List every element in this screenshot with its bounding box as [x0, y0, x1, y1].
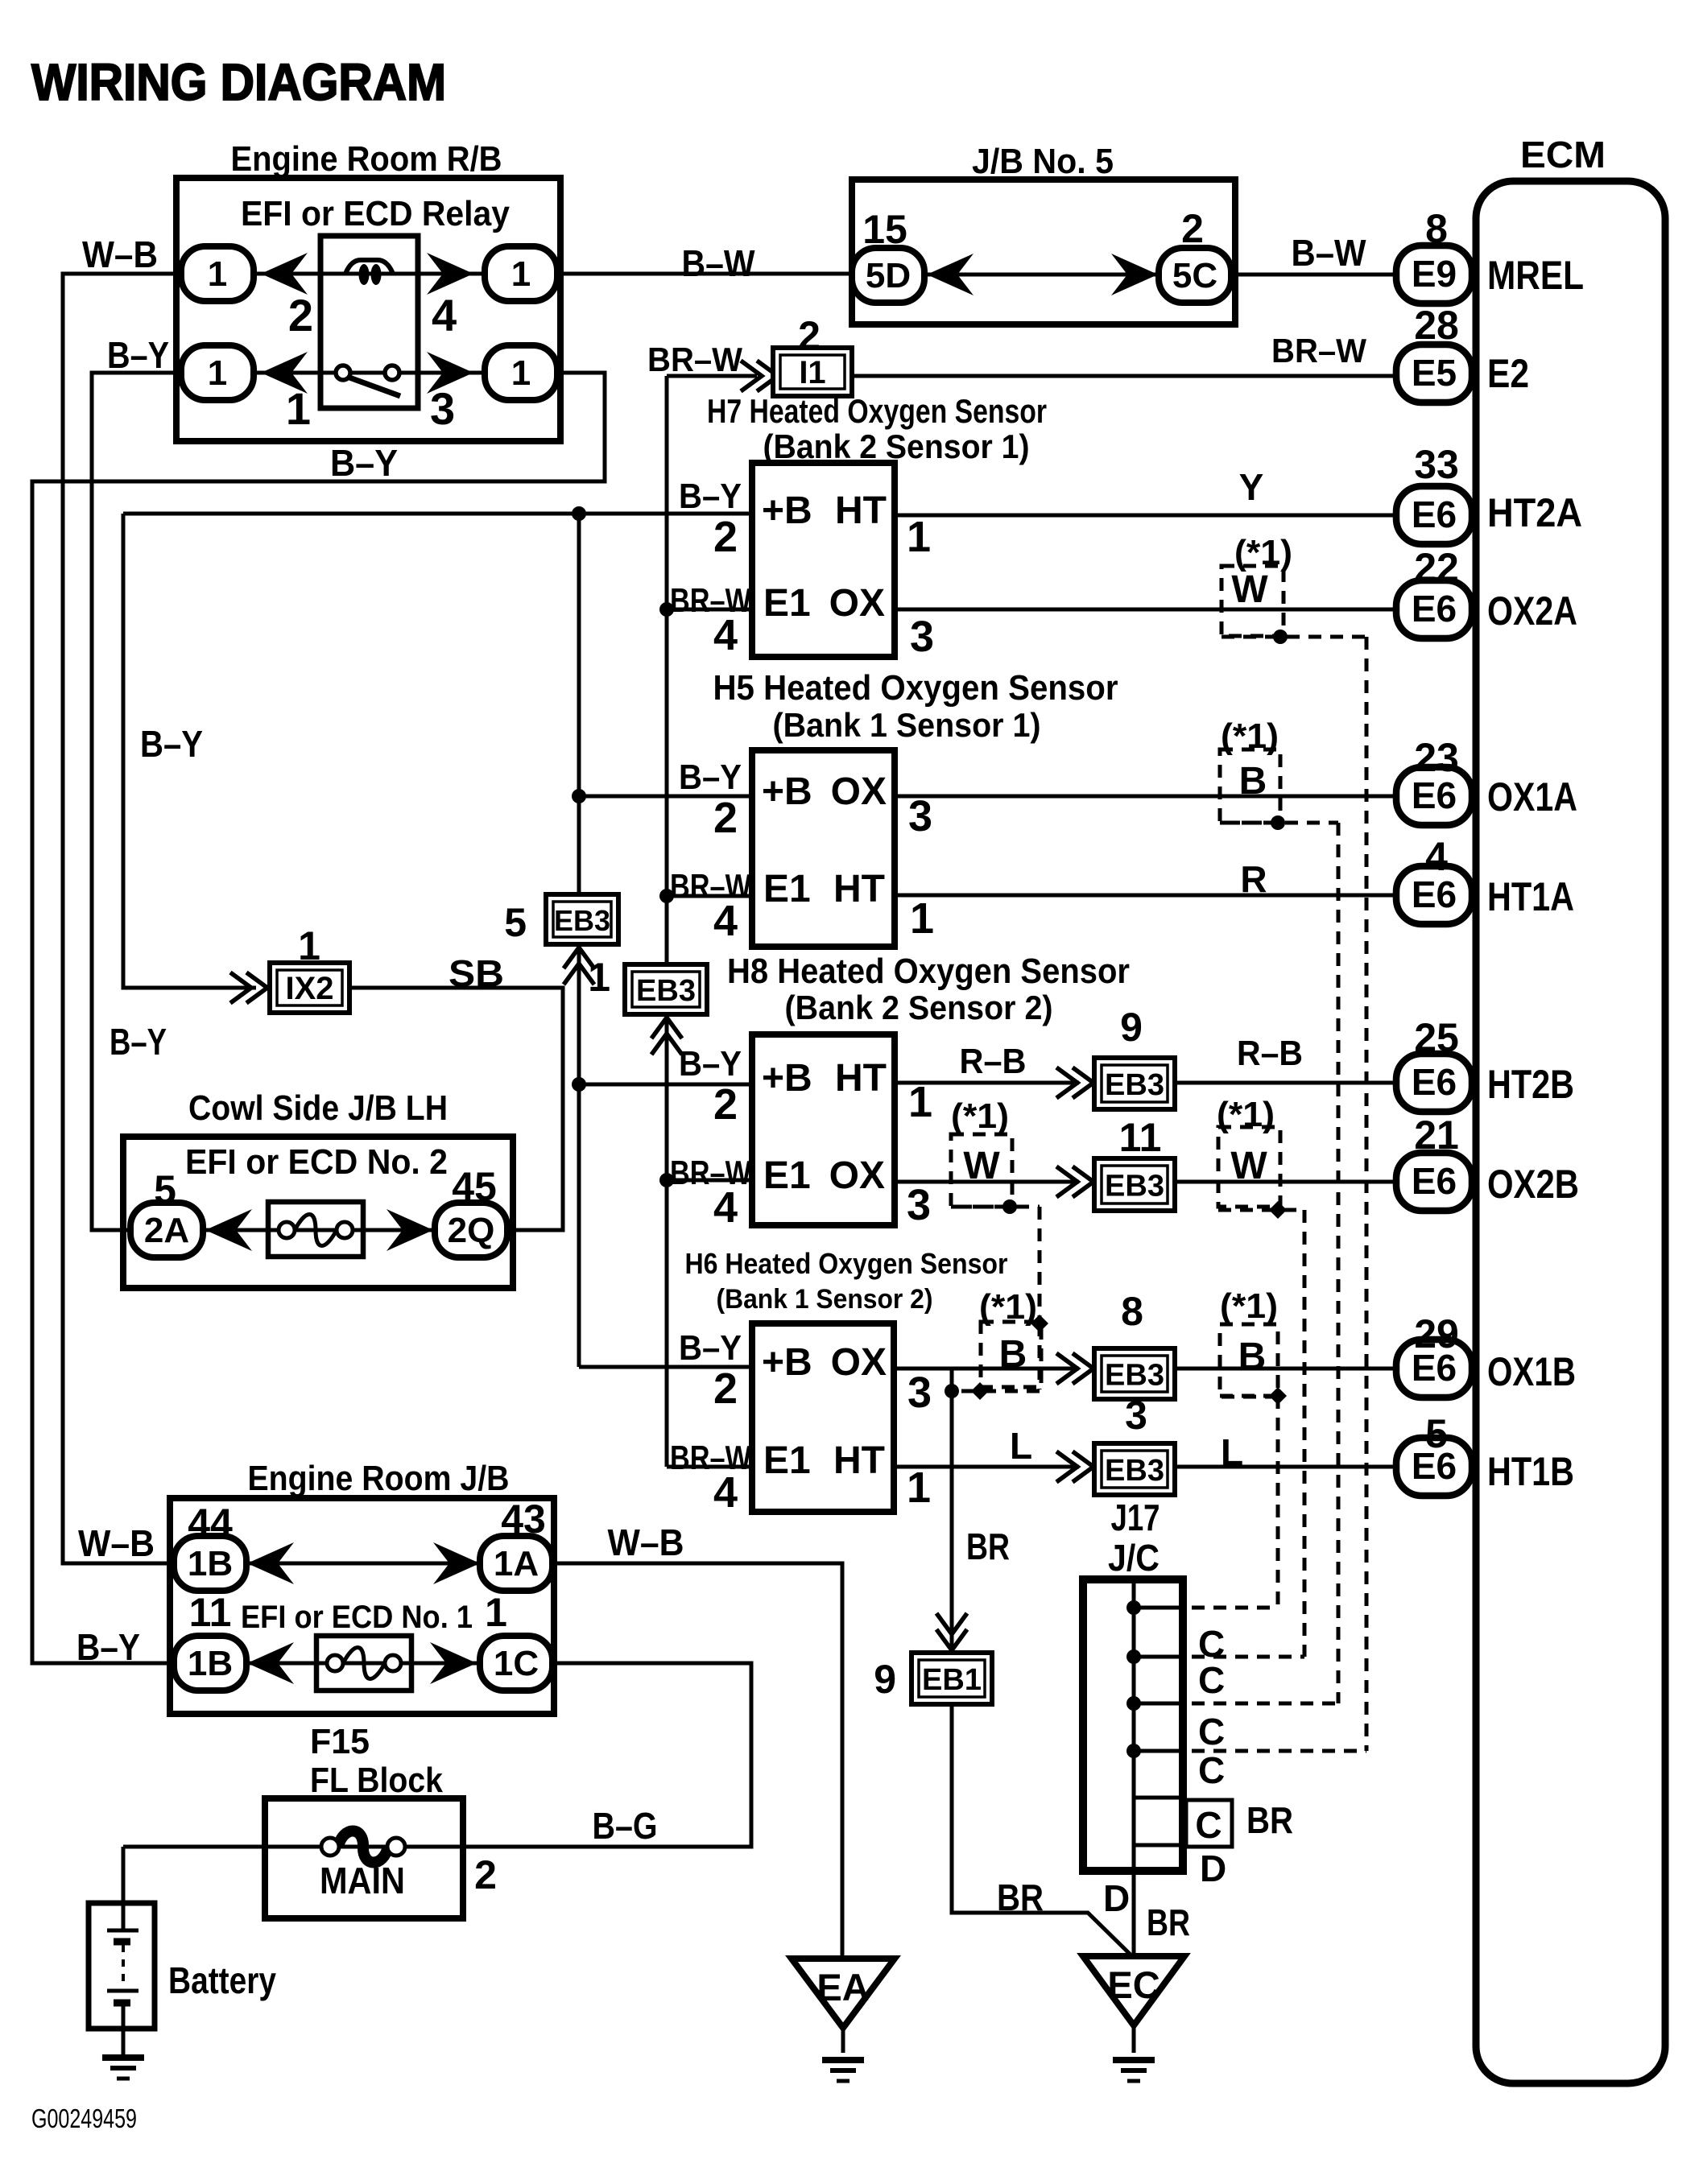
svg-text:(*1): (*1) — [1221, 716, 1279, 756]
svg-text:EB3: EB3 — [1105, 1068, 1164, 1102]
svg-text:E6: E6 — [1412, 1061, 1457, 1103]
svg-text:EB3: EB3 — [1105, 1170, 1164, 1203]
svg-text:BR: BR — [966, 1525, 1010, 1567]
svg-text:1: 1 — [298, 923, 320, 968]
svg-text:45: 45 — [452, 1164, 497, 1209]
svg-text:1C: 1C — [494, 1644, 539, 1683]
svg-text:I1: I1 — [799, 355, 825, 390]
svg-text:F15: F15 — [310, 1722, 370, 1761]
svg-text:EC: EC — [1107, 1963, 1160, 2006]
svg-text:D: D — [1103, 1877, 1130, 1919]
svg-text:R–B: R–B — [960, 1042, 1027, 1081]
svg-text:BR–W: BR–W — [670, 1154, 751, 1191]
svg-text:MAIN: MAIN — [320, 1860, 405, 1901]
svg-text:J/B No. 5: J/B No. 5 — [972, 142, 1114, 181]
svg-text:EFI or ECD No. 1: EFI or ECD No. 1 — [241, 1600, 473, 1635]
svg-text:B–Y: B–Y — [679, 1044, 742, 1084]
svg-text:(Bank 1 Sensor 1): (Bank 1 Sensor 1) — [773, 706, 1041, 744]
svg-text:EFI or ECD Relay: EFI or ECD Relay — [241, 194, 510, 233]
svg-text:44: 44 — [188, 1501, 233, 1546]
svg-text:R–B: R–B — [1237, 1034, 1303, 1073]
svg-text:EB3: EB3 — [1105, 1454, 1164, 1488]
svg-text:C: C — [1198, 1659, 1225, 1701]
svg-text:(*1): (*1) — [1220, 1286, 1278, 1326]
svg-text:W: W — [1231, 568, 1268, 611]
svg-text:EB3: EB3 — [554, 904, 610, 937]
svg-text:5C: 5C — [1172, 256, 1217, 295]
svg-text:(Bank 2 Sensor 1): (Bank 2 Sensor 1) — [763, 427, 1030, 465]
svg-text:11: 11 — [1119, 1115, 1162, 1160]
svg-text:E6: E6 — [1412, 873, 1457, 915]
svg-text:2: 2 — [713, 1080, 738, 1129]
svg-text:11: 11 — [189, 1590, 232, 1635]
svg-text:HT: HT — [835, 489, 887, 532]
svg-text:B–Y: B–Y — [679, 758, 742, 797]
svg-text:5: 5 — [1425, 1411, 1448, 1456]
svg-text:23: 23 — [1414, 735, 1459, 780]
svg-text:25: 25 — [1414, 1015, 1459, 1060]
svg-text:R: R — [1240, 858, 1267, 900]
svg-text:G00249459: G00249459 — [31, 2103, 137, 2133]
svg-text:OX2A: OX2A — [1487, 588, 1577, 634]
svg-text:B: B — [999, 1333, 1027, 1376]
svg-text:22: 22 — [1414, 545, 1459, 590]
svg-text:(*1): (*1) — [951, 1096, 1009, 1136]
svg-text:FL Block: FL Block — [310, 1761, 443, 1800]
svg-text:E1: E1 — [763, 868, 811, 910]
svg-text:OX: OX — [829, 1154, 885, 1197]
svg-text:W–B: W–B — [608, 1521, 684, 1563]
svg-text:(Bank 2 Sensor 2): (Bank 2 Sensor 2) — [785, 989, 1053, 1026]
svg-text:E2: E2 — [1487, 351, 1529, 396]
svg-text:9: 9 — [1120, 1005, 1143, 1050]
svg-text:BR–W: BR–W — [647, 341, 742, 378]
svg-text:Battery: Battery — [168, 1959, 276, 2001]
svg-text:1: 1 — [910, 894, 934, 943]
svg-text:WIRING DIAGRAM: WIRING DIAGRAM — [31, 53, 446, 111]
svg-text:HT: HT — [833, 868, 885, 910]
svg-text:H5 Heated Oxygen Sensor: H5 Heated Oxygen Sensor — [713, 668, 1118, 708]
svg-text:2: 2 — [798, 313, 821, 358]
svg-text:L: L — [1221, 1431, 1243, 1473]
svg-text:BR–W: BR–W — [670, 1439, 751, 1476]
svg-text:3: 3 — [910, 613, 934, 661]
svg-text:L: L — [1010, 1425, 1032, 1467]
svg-text:1: 1 — [286, 383, 311, 434]
svg-text:C: C — [1195, 1804, 1222, 1846]
svg-text:15: 15 — [862, 207, 907, 252]
svg-text:EFI or ECD No. 2: EFI or ECD No. 2 — [185, 1142, 448, 1182]
svg-text:Engine Room R/B: Engine Room R/B — [231, 139, 502, 179]
svg-text:J/C: J/C — [1108, 1537, 1160, 1579]
svg-text:B–Y: B–Y — [76, 1626, 140, 1668]
svg-text:1: 1 — [511, 254, 531, 294]
svg-text:4: 4 — [432, 290, 457, 341]
svg-text:(*1): (*1) — [1217, 1095, 1275, 1134]
svg-text:29: 29 — [1414, 1311, 1459, 1356]
svg-text:3: 3 — [430, 383, 455, 434]
svg-text:D: D — [1200, 1848, 1226, 1889]
svg-text:HT2B: HT2B — [1487, 1062, 1574, 1107]
svg-text:(*1): (*1) — [1234, 533, 1292, 572]
svg-text:H6 Heated Oxygen Sensor: H6 Heated Oxygen Sensor — [685, 1247, 1008, 1280]
svg-text:4: 4 — [1425, 834, 1448, 879]
svg-text:EB3: EB3 — [1105, 1359, 1164, 1393]
svg-text:ECM: ECM — [1520, 134, 1606, 175]
svg-text:E6: E6 — [1412, 1160, 1457, 1202]
svg-text:9: 9 — [874, 1657, 896, 1702]
svg-text:2: 2 — [1181, 206, 1204, 251]
svg-text:+B: +B — [762, 770, 812, 813]
svg-text:W: W — [1230, 1145, 1267, 1187]
svg-text:1B: 1B — [188, 1644, 233, 1683]
svg-text:Engine Room J/B: Engine Room J/B — [248, 1459, 510, 1498]
svg-text:B–Y: B–Y — [107, 334, 169, 376]
svg-text:EA: EA — [816, 1966, 869, 2009]
svg-text:B–W: B–W — [1292, 232, 1367, 274]
svg-text:3: 3 — [908, 792, 932, 840]
svg-text:5D: 5D — [866, 256, 911, 295]
svg-text:1A: 1A — [494, 1544, 539, 1583]
svg-text:MREL: MREL — [1487, 253, 1584, 298]
svg-text:E1: E1 — [763, 582, 811, 625]
svg-text:OX1B: OX1B — [1487, 1349, 1576, 1394]
svg-text:1: 1 — [908, 1078, 932, 1126]
svg-text:B: B — [1238, 1336, 1267, 1378]
svg-text:1: 1 — [588, 955, 610, 1000]
svg-text:BR–W: BR–W — [1271, 332, 1366, 370]
svg-text:B–Y: B–Y — [679, 477, 742, 516]
svg-text:+B: +B — [762, 1341, 812, 1384]
svg-text:J17: J17 — [1111, 1497, 1160, 1538]
svg-text:1: 1 — [907, 1464, 931, 1512]
svg-text:21: 21 — [1414, 1113, 1459, 1158]
svg-text:HT1A: HT1A — [1487, 874, 1574, 919]
svg-text:E1: E1 — [763, 1154, 811, 1197]
svg-text:+B: +B — [762, 1057, 812, 1100]
svg-text:1B: 1B — [188, 1544, 233, 1583]
svg-text:E6: E6 — [1412, 493, 1457, 535]
svg-text:HT: HT — [833, 1439, 885, 1482]
svg-text:OX: OX — [831, 770, 887, 813]
svg-text:OX: OX — [831, 1341, 887, 1384]
svg-text:B: B — [1239, 760, 1267, 803]
svg-text:HT1B: HT1B — [1487, 1449, 1574, 1494]
svg-text:2: 2 — [474, 1852, 497, 1897]
svg-text:2: 2 — [713, 794, 738, 842]
svg-text:2: 2 — [713, 1364, 738, 1413]
svg-text:3: 3 — [1125, 1393, 1147, 1438]
svg-text:E1: E1 — [763, 1439, 811, 1482]
svg-text:1: 1 — [907, 513, 931, 561]
svg-text:OX1A: OX1A — [1487, 774, 1577, 820]
svg-text:B–Y: B–Y — [679, 1328, 742, 1368]
svg-text:EB1: EB1 — [922, 1663, 982, 1697]
svg-text:8: 8 — [1425, 206, 1448, 251]
svg-text:2: 2 — [288, 290, 313, 341]
svg-text:5: 5 — [504, 900, 527, 945]
svg-text:IX2: IX2 — [285, 971, 333, 1006]
svg-text:HT2A: HT2A — [1487, 490, 1582, 535]
svg-text:8: 8 — [1121, 1289, 1143, 1334]
svg-text:1: 1 — [485, 1590, 507, 1635]
svg-text:+B: +B — [762, 489, 812, 532]
svg-text:BR: BR — [1246, 1799, 1293, 1841]
svg-text:HT: HT — [835, 1057, 887, 1100]
svg-text:1: 1 — [511, 353, 531, 393]
svg-text:B–W: B–W — [682, 242, 756, 284]
svg-text:EB3: EB3 — [636, 974, 696, 1008]
svg-text:(Bank 1 Sensor 2): (Bank 1 Sensor 2) — [717, 1284, 933, 1315]
svg-text:E6: E6 — [1412, 774, 1457, 816]
svg-text:C: C — [1198, 1711, 1225, 1753]
svg-text:2Q: 2Q — [448, 1211, 495, 1250]
svg-text:BR–W: BR–W — [670, 867, 751, 905]
svg-text:E9: E9 — [1412, 253, 1457, 295]
svg-text:B–Y: B–Y — [140, 723, 203, 765]
svg-text:5: 5 — [154, 1167, 176, 1212]
svg-text:BR–W: BR–W — [670, 581, 751, 619]
svg-text:BR: BR — [997, 1876, 1044, 1918]
svg-text:Cowl Side J/B LH: Cowl Side J/B LH — [188, 1088, 448, 1128]
svg-text:43: 43 — [501, 1497, 546, 1542]
svg-text:1: 1 — [208, 353, 227, 393]
svg-text:3: 3 — [907, 1181, 931, 1229]
svg-text:B–Y: B–Y — [330, 442, 398, 484]
svg-text:1: 1 — [208, 254, 227, 294]
svg-text:H8 Heated Oxygen Sensor: H8 Heated Oxygen Sensor — [727, 952, 1130, 991]
svg-text:SB: SB — [449, 952, 504, 994]
svg-text:E6: E6 — [1412, 588, 1457, 630]
svg-text:33: 33 — [1414, 442, 1459, 487]
svg-text:W: W — [963, 1145, 1000, 1187]
svg-text:OX: OX — [829, 582, 885, 625]
svg-text:W–B: W–B — [82, 233, 158, 275]
svg-text:BR: BR — [1147, 1901, 1190, 1943]
svg-text:C: C — [1198, 1749, 1225, 1791]
svg-text:2: 2 — [713, 513, 738, 561]
svg-text:E5: E5 — [1412, 352, 1457, 394]
svg-text:Y: Y — [1239, 466, 1264, 508]
svg-text:W–B: W–B — [78, 1522, 155, 1564]
svg-text:2A: 2A — [144, 1211, 189, 1250]
svg-text:OX2B: OX2B — [1487, 1162, 1579, 1207]
svg-text:B–G: B–G — [593, 1805, 658, 1847]
svg-text:3: 3 — [907, 1369, 932, 1417]
svg-text:H7 Heated Oxygen Sensor: H7 Heated Oxygen Sensor — [707, 392, 1047, 430]
svg-text:(*1): (*1) — [979, 1287, 1037, 1327]
svg-text:28: 28 — [1414, 303, 1459, 348]
svg-text:B–Y: B–Y — [110, 1021, 167, 1063]
